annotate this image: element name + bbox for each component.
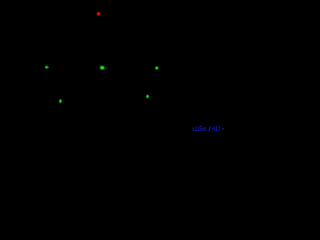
LED D5 (green, lower-left node) bbox=[58, 99, 62, 104]
LED D4 (green, middle-right node) bbox=[154, 66, 159, 71]
LED D2 (green, middle-left node) bbox=[44, 65, 49, 69]
svg-text:617: 617 bbox=[212, 126, 220, 133]
LED D6 (green, lower-right node) bbox=[145, 94, 149, 99]
background canvas bbox=[0, 0, 225, 135]
status readout text (bottom right) bbox=[192, 126, 224, 133]
LED D1 (red indicator, top centre) bbox=[96, 11, 102, 17]
svg-text:/: / bbox=[208, 126, 211, 133]
svg-text:x125m: x125m bbox=[192, 126, 206, 133]
LED D3 (bright green rectangle, centre node) bbox=[100, 66, 105, 70]
